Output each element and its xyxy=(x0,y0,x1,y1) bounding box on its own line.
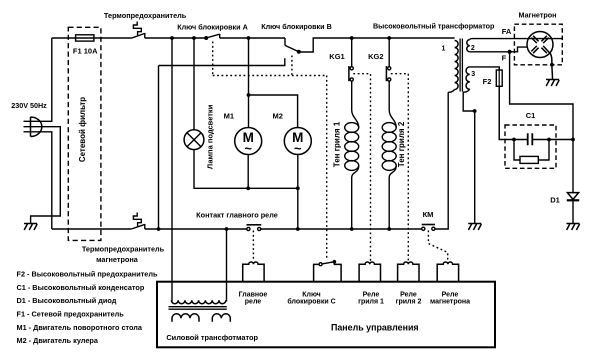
mechanical link door interlock horizontal xyxy=(213,75,327,77)
node dot top bus x172 xyxy=(170,36,174,40)
wire top bus middle segment xyxy=(145,37,206,39)
relay contact KG1 xyxy=(348,66,350,81)
node dot bottom bus x158 xyxy=(157,227,161,231)
wire HV winding 2 to magnetron FA lead xyxy=(470,38,563,41)
motor M1 xyxy=(235,128,262,155)
wire switch B NC throw to lower rail xyxy=(159,58,285,229)
svg-text:Реле: Реле xyxy=(442,291,459,298)
svg-text:F: F xyxy=(502,54,507,63)
HV transformer winding 2 (filament) xyxy=(467,40,470,52)
wire bottom bus left segment xyxy=(52,228,132,230)
svg-text:F2 - Высоковольтный предохрани: F2 - Высоковольтный предохранитель xyxy=(17,270,158,279)
node dot magnetron chassis xyxy=(550,63,554,67)
magnetron dashed box xyxy=(514,24,562,65)
mains filter dashed box (Сетевой фильтр) xyxy=(68,27,101,240)
node dot HV winding 3 ground junction xyxy=(473,109,477,113)
wire fuse F2 down to C1 node xyxy=(499,86,528,139)
relay contact KM xyxy=(422,224,435,226)
wire lamp bottom to common return xyxy=(194,150,298,189)
node dot F (filament) xyxy=(508,50,512,54)
wire grill heater 1 to bottom bus xyxy=(351,177,353,229)
wire switch B output step up xyxy=(299,38,455,52)
svg-text:3: 3 xyxy=(471,71,475,78)
motor M2 xyxy=(284,128,311,155)
svg-text:F1 - Сетевой предохранитель: F1 - Сетевой предохранитель xyxy=(17,310,125,319)
main relay contact (Контакт главного реле) xyxy=(247,224,262,226)
wire magnetron filament chord inside tube xyxy=(528,38,551,40)
wire HV rail down to diode D1 xyxy=(572,140,574,193)
svg-text:Панель управления: Панель управления xyxy=(331,323,419,333)
svg-text:Ключ блокировки А: Ключ блокировки А xyxy=(177,22,248,31)
wire bottom bus after main relay contact xyxy=(261,228,422,230)
plug pin 2 wire to protective earth xyxy=(24,127,61,224)
power transformer primary winding xyxy=(171,300,225,303)
wire F node to magnetron cathode xyxy=(510,47,528,52)
wire motor feed branch xyxy=(249,38,298,128)
svg-text:C1: C1 xyxy=(526,111,536,120)
control panel box (Панель управления) xyxy=(157,282,495,348)
capacitor C1 dashed box xyxy=(505,125,556,168)
capacitor C1 plates xyxy=(528,133,533,145)
wire KM output up to HV transformer primary xyxy=(435,92,448,229)
HV transformer winding 1 (primary) xyxy=(455,41,459,90)
wire power transformer primary right lead xyxy=(226,229,228,302)
svg-text:гриля 1: гриля 1 xyxy=(358,299,384,306)
relay coil Главное реле xyxy=(243,262,264,282)
node dot bottom bus transformer return xyxy=(225,227,229,231)
svg-text:~: ~ xyxy=(244,141,252,156)
relay contact KG2 xyxy=(385,66,387,81)
wire power transformer primary left lead xyxy=(171,38,173,302)
mechanical link KM relay xyxy=(428,231,447,262)
node dot bottom bus motor return xyxy=(296,227,300,231)
node dot bottom bus heater 1 xyxy=(350,227,354,231)
svg-text:KG2: KG2 xyxy=(368,52,383,61)
node dot switch B pivot xyxy=(297,50,301,54)
svg-text:Силовой трансфотматор: Силовой трансфотматор xyxy=(166,333,258,342)
plug pin 3 wire down to bottom bus xyxy=(24,132,52,229)
svg-text:Реле: Реле xyxy=(363,291,380,298)
svg-text:M1 - Двигатель поворотного сто: M1 - Двигатель поворотного стола xyxy=(17,323,143,332)
relay coil Реле магнетрона xyxy=(437,262,458,282)
grill heater coil 2 (Тен гриля 2) xyxy=(389,110,396,128)
power transformer core xyxy=(169,307,227,310)
svg-text:Магнетрон: Магнетрон xyxy=(519,11,557,20)
node dot motor feed tee xyxy=(247,93,251,97)
node dot switch A pivot xyxy=(204,36,208,40)
svg-text:Тен гриля 2: Тен гриля 2 xyxy=(397,121,406,167)
HV transformer winding 3 (HV secondary) xyxy=(466,67,470,90)
wire M2 bottom and return to bottom bus xyxy=(297,155,299,230)
svg-text:Лампа подсветки: Лампа подсветки xyxy=(205,104,214,169)
wire top bus left segment xyxy=(52,37,132,39)
svg-text:1: 1 xyxy=(442,46,446,53)
svg-text:2: 2 xyxy=(471,45,475,52)
svg-text:F2: F2 xyxy=(483,77,492,86)
svg-text:KG1: KG1 xyxy=(329,52,344,61)
svg-text:Термопредохранитель: Термопредохранитель xyxy=(104,11,187,20)
mechanical link switch A xyxy=(212,42,214,76)
wire HV transformer primary bottom xyxy=(448,90,454,93)
C1 bleeder resistor body xyxy=(520,156,538,163)
svg-text:Сетевой фильтр: Сетевой фильтр xyxy=(78,97,87,162)
HV transformer ground symbol xyxy=(468,224,481,231)
svg-text:Главное: Главное xyxy=(239,291,268,298)
svg-text:Ключ: Ключ xyxy=(302,291,321,298)
relay coil Реле гриля 1 xyxy=(359,262,380,282)
node dot bottom bus heater 2 xyxy=(387,227,391,231)
thermal fuse of magnetron switch arm xyxy=(131,224,145,229)
diode D1 xyxy=(567,193,578,200)
wire HV winding 2 bottom to F node xyxy=(470,51,510,53)
mechanical link main relay xyxy=(252,231,254,262)
svg-text:реле: реле xyxy=(245,299,262,306)
node dot C1 right xyxy=(547,138,551,142)
svg-text:Ключ блокировки В: Ключ блокировки В xyxy=(261,22,332,31)
wire HV winding 3 top to fuse F2 xyxy=(470,67,499,70)
protective earth ground symbol xyxy=(24,224,37,231)
svg-text:КМ: КМ xyxy=(423,210,434,219)
node dot HV rail tee xyxy=(571,138,575,142)
HV transformer core xyxy=(460,39,462,92)
svg-text:M2: M2 xyxy=(272,111,282,120)
power transformer secondary winding 1 xyxy=(172,314,199,322)
node dot top bus lamp branch xyxy=(192,36,196,40)
svg-text:Высоковольтный трансформатор: Высоковольтный трансформатор xyxy=(373,22,495,31)
svg-text:D1 - Высоковольтный диод: D1 - Высоковольтный диод xyxy=(17,296,117,305)
mechanical link KG2 xyxy=(391,74,409,262)
thermal fuse bimetal squiggle xyxy=(133,22,141,36)
svg-text:M1: M1 xyxy=(224,111,234,120)
wire KG2 branch from top bus xyxy=(388,38,390,67)
D1 ground symbol xyxy=(566,224,579,231)
svg-text:Реле: Реле xyxy=(400,291,417,298)
plug pin 1 wire up to bus xyxy=(24,38,52,121)
node dot M1 return tee xyxy=(246,186,250,190)
wire KG2 to grill heater 2 xyxy=(388,81,390,110)
wire KG1 branch from top bus xyxy=(351,38,353,67)
svg-text:FA: FA xyxy=(502,27,512,36)
wire KG1 to grill heater 1 xyxy=(351,81,353,110)
svg-text:F1 10A: F1 10A xyxy=(73,47,98,56)
node dot KG1 branch xyxy=(350,36,354,40)
svg-text:C1 - Высоковольтный конденсато: C1 - Высоковольтный конденсатор xyxy=(17,283,145,292)
wire HV winding 3 bottom to transformer ground xyxy=(463,89,475,223)
svg-text:Термопредохранитель: Термопредохранитель xyxy=(82,245,165,254)
svg-text:~: ~ xyxy=(294,141,302,156)
svg-text:магнетрона: магнетрона xyxy=(96,255,139,264)
magnetron output lead to chassis xyxy=(543,46,552,80)
wire C1 right plate to HV rail xyxy=(532,139,573,141)
svg-text:D1: D1 xyxy=(550,195,560,204)
mechanical link KG1 xyxy=(353,74,370,262)
node dot M2 return tee xyxy=(296,186,300,190)
magnetron anode X pattern xyxy=(531,36,548,53)
thermal fuse of magnetron squiggle xyxy=(133,213,141,227)
wire lamp branch from top bus xyxy=(193,38,195,130)
mechanical link switch B xyxy=(291,56,293,76)
mechanical link down to switch C xyxy=(326,76,328,260)
lamp (Лампа подсветки) xyxy=(184,130,204,150)
grill heater coil 1 (Тен гриля 1) xyxy=(352,110,359,128)
fuse F2 xyxy=(496,70,502,86)
fuse F1 xyxy=(76,35,94,41)
svg-text:блокировки С: блокировки С xyxy=(287,298,335,306)
thermal fuse (Термопредохранитель) switch arm xyxy=(131,33,145,38)
wire bottom bus middle segment xyxy=(145,228,247,230)
mains plug body xyxy=(31,117,42,137)
wire F node down and over to HV rail xyxy=(510,52,573,140)
wire top bus to switch B xyxy=(220,38,285,45)
node dot KG2 branch xyxy=(387,36,391,40)
svg-text:магнетрона: магнетрона xyxy=(430,299,470,306)
wire D1 cathode to ground xyxy=(572,200,574,223)
magnetron tube circle xyxy=(527,32,553,58)
power transformer secondary winding 2 xyxy=(212,314,230,322)
node dot motor feed branch xyxy=(247,36,251,40)
magnetron ground symbol xyxy=(546,80,559,87)
svg-text:230V 50Hz: 230V 50Hz xyxy=(11,101,47,110)
C1 bleeder resistor loop xyxy=(514,140,549,161)
wire M1 bottom xyxy=(247,155,249,189)
svg-text:Тен гриля 1: Тен гриля 1 xyxy=(332,121,341,167)
interlock switch B arm (Ключ блокировки В) xyxy=(285,45,299,51)
svg-text:гриля 2: гриля 2 xyxy=(396,299,422,306)
relay coil Реле гриля 2 xyxy=(398,262,419,282)
svg-text:Контакт главного реле: Контакт главного реле xyxy=(196,211,278,220)
interlock switch C xyxy=(314,262,342,282)
node dot C1 left xyxy=(512,138,516,142)
svg-text:M2 - Двигатель кулера: M2 - Двигатель кулера xyxy=(17,336,99,345)
wire grill heater 2 to bottom bus xyxy=(388,177,390,229)
interlock switch A arm (Ключ блокировки А) xyxy=(206,34,220,38)
